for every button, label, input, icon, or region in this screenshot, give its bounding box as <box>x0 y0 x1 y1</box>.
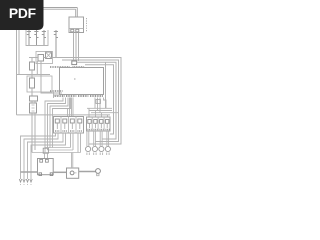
svg-text:PDF: PDF <box>9 6 36 21</box>
